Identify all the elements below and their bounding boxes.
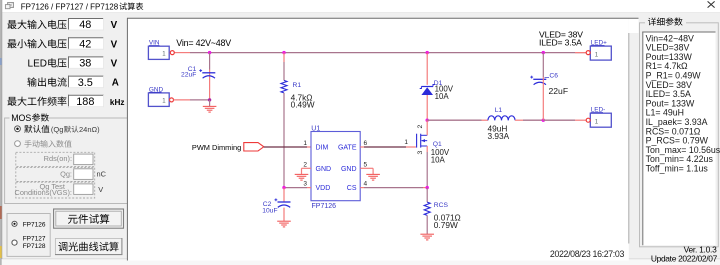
svg-text:A: A [112, 78, 119, 89]
svg-text:nC: nC [97, 170, 107, 179]
svg-text:188: 188 [76, 96, 94, 108]
svg-text:GND: GND [341, 166, 357, 173]
svg-text:0.79W: 0.79W [434, 220, 458, 230]
terminal GND [148, 86, 173, 106]
wire R1 to VDD [283, 93, 285, 188]
svg-text:Vin= 42V~48V: Vin= 42V~48V [176, 38, 231, 48]
label D1 values [434, 80, 454, 101]
pin numbers U1 [303, 140, 367, 188]
label RCS values [434, 202, 461, 230]
svg-text:6: 6 [364, 140, 368, 147]
wire VIN bus [210, 52, 587, 54]
label C2 [262, 201, 277, 214]
label Q1 values [431, 141, 450, 164]
wire switch node to L1 [427, 119, 488, 121]
svg-text:24nΩ): 24nΩ) [79, 125, 100, 134]
label L1 values [488, 107, 510, 141]
svg-text:3: 3 [417, 151, 424, 155]
svg-text:FP7126: FP7126 [312, 203, 337, 210]
svg-text:V: V [111, 39, 118, 50]
svg-text:22uF: 22uF [181, 72, 196, 79]
wire C2 to ground [283, 208, 285, 222]
svg-text:Toff_min= 1.1us: Toff_min= 1.1us [646, 164, 709, 174]
svg-text:42: 42 [79, 38, 91, 50]
wire C1 branch [209, 53, 211, 100]
svg-text:3.5: 3.5 [78, 77, 93, 89]
capacitor C1 22uF [199, 69, 215, 78]
svg-text:R1: R1 [293, 82, 302, 89]
svg-text:1: 1 [404, 139, 408, 146]
capacitor C2 10uF [275, 198, 291, 207]
wire U1 pin5 to ground [360, 168, 373, 174]
wire through C6 [542, 77, 544, 120]
wire CS to RCS node [360, 187, 427, 189]
wire U1 pin2 to ground [302, 168, 312, 174]
wire bus to LED+ [575, 52, 586, 54]
svg-text:5: 5 [364, 161, 368, 168]
svg-text:C6: C6 [549, 72, 558, 79]
svg-text:U1: U1 [311, 125, 320, 132]
svg-text:PWM Dimming: PWM Dimming [192, 143, 241, 152]
wire GATE to Q1 gate [360, 146, 416, 148]
svg-text:V: V [111, 59, 118, 70]
wire C6 branch top [542, 53, 544, 77]
ground G2 [295, 174, 309, 180]
svg-text:kHz: kHz [110, 98, 125, 107]
node switch junction [426, 119, 429, 122]
svg-text:10A: 10A [435, 92, 450, 101]
pin names U1 [316, 144, 357, 192]
svg-text:2022/08/23 16:27:03: 2022/08/23 16:27:03 [550, 249, 625, 259]
svg-text:1: 1 [303, 140, 307, 147]
wire D1 anode to switch node [426, 95, 428, 120]
svg-text:ILED= 3.5A: ILED= 3.5A [539, 38, 582, 48]
ground G5 [420, 234, 434, 240]
resistor R1 [281, 80, 287, 93]
svg-text:Update 2022/02/07: Update 2022/02/07 [651, 254, 718, 264]
capacitor C6 22uF [530, 76, 546, 85]
op-amp/IC U1 FP7126 [311, 132, 360, 201]
svg-text:L1: L1 [495, 107, 503, 114]
node bus/R1 junction [282, 51, 285, 54]
port PWM Dimming [244, 143, 264, 151]
svg-text:Rds(on):: Rds(on): [44, 154, 72, 163]
wire Q1 source to CS node [426, 146, 428, 188]
svg-text:48: 48 [79, 19, 91, 31]
svg-text:Qg:: Qg: [60, 169, 72, 178]
terminal VIN [148, 40, 174, 60]
node L1/C6 junction [542, 119, 545, 122]
svg-text:LED: LED [28, 59, 47, 70]
svg-text:VDD: VDD [316, 185, 331, 192]
wire L1 to C6 node [515, 119, 543, 121]
svg-text:(Qg: (Qg [51, 125, 64, 134]
svg-text:V: V [111, 20, 118, 31]
svg-text:2: 2 [303, 161, 307, 168]
ground G1 [203, 100, 217, 112]
svg-text:FP7126: FP7126 [23, 221, 46, 228]
wire PWM to DIM pin [264, 146, 311, 148]
wire RCS to ground [426, 215, 428, 234]
svg-text:2: 2 [417, 125, 424, 129]
svg-text:3: 3 [303, 181, 307, 188]
svg-text:GATE: GATE [338, 144, 357, 151]
node bus/C6 junction [542, 51, 545, 54]
svg-text:22uF: 22uF [549, 86, 569, 96]
wire bus to D1 cathode [426, 53, 428, 85]
terminal LED- [586, 107, 611, 128]
wire VDD to R1/C2 node [284, 187, 311, 189]
label C6 [545, 72, 569, 96]
svg-text:0.49W: 0.49W [291, 100, 315, 110]
svg-text:V: V [98, 185, 103, 194]
wire C6 to LED- [543, 119, 586, 121]
wire GND pin to C1 bottom [174, 99, 210, 101]
svg-text:3.93A: 3.93A [488, 131, 510, 141]
ground G3 [366, 174, 380, 180]
wire Q1 drain -- [426, 120, 428, 135]
svg-text:DIM: DIM [316, 144, 329, 151]
label C1 [181, 66, 197, 79]
svg-text:38: 38 [79, 58, 91, 70]
svg-text:RCS: RCS [434, 202, 449, 209]
wire R1 branch [283, 53, 285, 81]
svg-text:MOS: MOS [11, 113, 31, 123]
svg-text:10A: 10A [431, 155, 446, 164]
node C1/GND junction [208, 98, 211, 101]
svg-text:FP7126 / FP7127 / FP7128: FP7126 / FP7127 / FP7128 [21, 2, 119, 11]
svg-text:CS: CS [347, 185, 357, 192]
wire to RCS [426, 188, 428, 203]
wire C2 branch [283, 188, 285, 202]
svg-text:4: 4 [364, 181, 368, 188]
node bus/C1 junction [208, 51, 211, 54]
node VDD junction [282, 186, 285, 189]
svg-text:10uF: 10uF [262, 207, 277, 214]
label VLED/ILED [539, 29, 583, 47]
inductor L1 [488, 116, 515, 120]
svg-text:FP7127: FP7127 [23, 235, 46, 242]
svg-text:GND: GND [316, 166, 332, 173]
svg-text:FP7128: FP7128 [23, 243, 46, 250]
node CS junction [426, 186, 429, 189]
label R1 values [291, 82, 315, 110]
node bus/D1 junction [426, 51, 429, 54]
diode D1 schottky [420, 85, 435, 96]
transistor Q1 NMOS [417, 134, 428, 148]
svg-text:Conditions(VGS):: Conditions(VGS): [14, 188, 72, 197]
terminal LED+ [586, 40, 611, 61]
resistor RCS [424, 202, 430, 215]
ground G4 [277, 221, 291, 227]
wire VIN pin to bus [174, 52, 209, 54]
